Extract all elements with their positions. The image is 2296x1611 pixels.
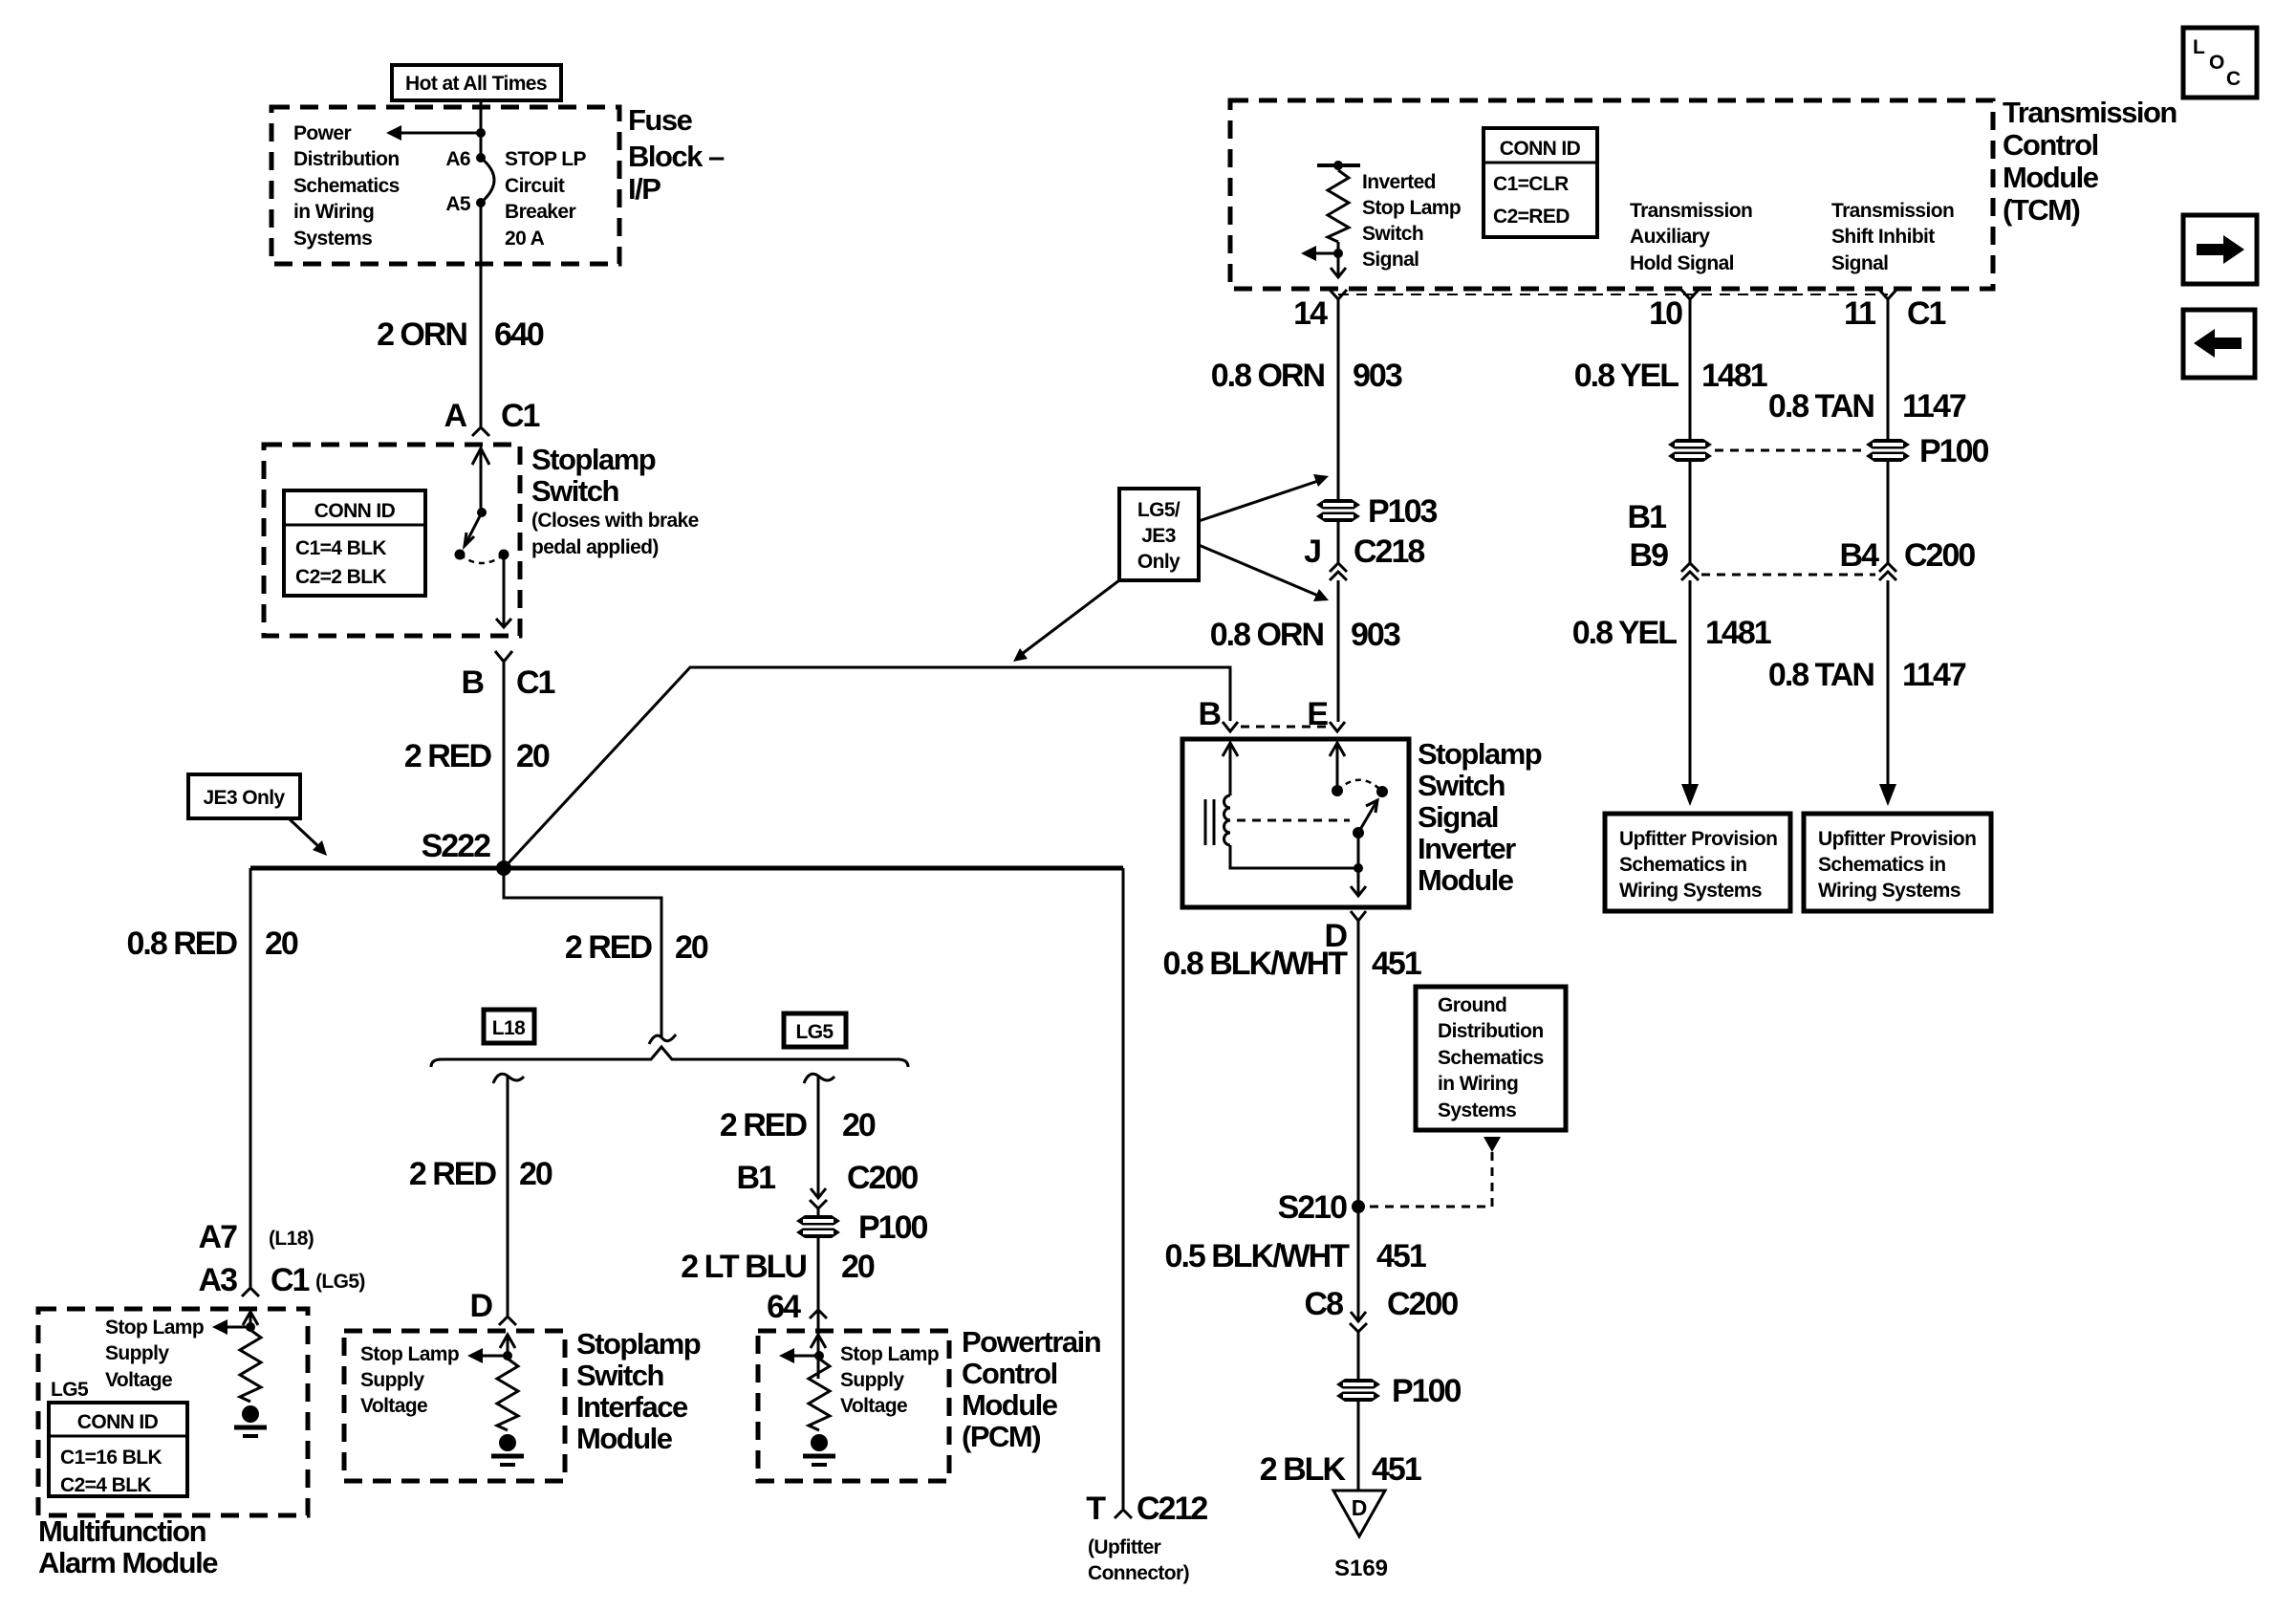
note: Stop Lamp Supply Voltage (PCM) bbox=[840, 1343, 939, 1417]
connector B C1 bbox=[461, 651, 554, 701]
connector C8 C200 bbox=[1305, 1286, 1459, 1332]
wire label 0.8 YEL 1481 (lower) bbox=[1572, 615, 1771, 651]
svg-text:C200: C200 bbox=[847, 1160, 918, 1196]
svg-text:20: 20 bbox=[265, 925, 298, 962]
JE3 main wire (horizontal run) bbox=[250, 866, 1123, 871]
splice S222 bbox=[422, 828, 511, 876]
pin 11 C1 bbox=[1844, 290, 1946, 332]
svg-text:C1: C1 bbox=[1907, 295, 1946, 332]
wire: JE3 run down to upfitter connector bbox=[1122, 868, 1125, 1509]
svg-text:Voltage: Voltage bbox=[840, 1395, 907, 1417]
wire label 0.8 BLK/WHT 451 bbox=[1163, 946, 1421, 982]
svg-text:JE3: JE3 bbox=[1141, 525, 1176, 547]
svg-text:LG5/: LG5/ bbox=[1137, 499, 1180, 521]
svg-text:0.8 ORN: 0.8 ORN bbox=[1210, 617, 1324, 653]
svg-text:P100: P100 bbox=[1919, 433, 1988, 469]
svg-text:Wiring Systems: Wiring Systems bbox=[1818, 880, 1960, 902]
forward arrow box bbox=[2183, 215, 2257, 284]
svg-text:LG5: LG5 bbox=[795, 1021, 834, 1043]
svg-text:P100: P100 bbox=[858, 1209, 927, 1246]
svg-text:P103: P103 bbox=[1368, 493, 1437, 530]
powertrain control module dashed box bbox=[758, 1331, 949, 1481]
transmission control module dashed box bbox=[1230, 100, 1993, 289]
svg-text:Module: Module bbox=[2003, 161, 2099, 194]
terminal A6 bbox=[445, 148, 486, 170]
wire pin11 to C200 bbox=[1887, 462, 1890, 563]
svg-text:Block –: Block – bbox=[628, 140, 725, 173]
connector B9 C200 bbox=[1681, 563, 1699, 580]
svg-text:Auxiliary: Auxiliary bbox=[1630, 226, 1710, 248]
svg-text:2 RED: 2 RED bbox=[404, 738, 492, 774]
switch pivot dot bbox=[477, 508, 487, 517]
svg-text:Supply: Supply bbox=[840, 1369, 904, 1391]
svg-text:640: 640 bbox=[494, 316, 544, 353]
stoplamp switch dashed box bbox=[264, 445, 520, 636]
ground (interface) bbox=[491, 1434, 524, 1465]
connector J C218 bbox=[1304, 533, 1424, 580]
svg-text:(Upfitter: (Upfitter bbox=[1088, 1536, 1161, 1558]
inverter output dot bbox=[1354, 863, 1363, 873]
svg-text:2 LT BLU: 2 LT BLU bbox=[681, 1249, 806, 1285]
page icon LOC box bbox=[2183, 28, 2257, 98]
svg-text:Switch: Switch bbox=[576, 1359, 663, 1392]
svg-text:L: L bbox=[2193, 36, 2205, 58]
wire: 1481 down to upfitter provision bbox=[1689, 580, 1692, 786]
svg-text:Signal: Signal bbox=[1418, 800, 1498, 834]
svg-text:Stoplamp: Stoplamp bbox=[531, 443, 656, 476]
svg-text:B: B bbox=[461, 664, 484, 701]
wire: 1147 down to upfitter provision bbox=[1887, 580, 1890, 786]
svg-text:0.8 YEL: 0.8 YEL bbox=[1574, 358, 1679, 394]
connector B bbox=[1198, 696, 1238, 732]
PCM signal leader bbox=[779, 1348, 819, 1363]
switch contact dots bbox=[455, 550, 509, 560]
ground reference triangle D bbox=[1333, 1491, 1385, 1536]
svg-text:S169: S169 bbox=[1334, 1556, 1388, 1581]
svg-text:C1=CLR: C1=CLR bbox=[1493, 173, 1569, 195]
wire label 0.8 RED 20 bbox=[127, 925, 298, 962]
svg-text:Fuse: Fuse bbox=[628, 103, 693, 137]
svg-text:O: O bbox=[2209, 52, 2224, 74]
circuit breaker STOP LP 20 A bbox=[481, 158, 494, 203]
dashed link between P100 grommets bbox=[1715, 449, 1864, 452]
connector A3/A7 C1 bbox=[242, 1288, 259, 1296]
svg-text:B9: B9 bbox=[1630, 537, 1669, 574]
svg-text:P100: P100 bbox=[1392, 1373, 1461, 1409]
wire label 2 RED 20 (LG5 branch) bbox=[720, 1107, 876, 1143]
svg-text:Switch: Switch bbox=[531, 474, 618, 508]
wire: battery feed into fuse block bbox=[480, 100, 483, 158]
JE3 leader arrow bbox=[289, 818, 327, 856]
svg-text:20 A: 20 A bbox=[505, 228, 545, 250]
svg-text:JE3 Only: JE3 Only bbox=[203, 787, 285, 809]
wire: circuit 903 from pin 14 bbox=[1337, 299, 1340, 499]
svg-text:Supply: Supply bbox=[360, 1369, 424, 1391]
svg-text:Transmission: Transmission bbox=[2003, 96, 2177, 129]
svg-text:2 RED: 2 RED bbox=[409, 1156, 497, 1192]
svg-text:0.8 TAN: 0.8 TAN bbox=[1768, 657, 1874, 693]
L18 branch break symbol bbox=[493, 1074, 524, 1083]
wire label 0.5 BLK/WHT 451 bbox=[1165, 1238, 1426, 1274]
switch input arrow bbox=[472, 448, 489, 512]
wire: S222 stub to option break bbox=[504, 868, 661, 1037]
svg-text:1481: 1481 bbox=[1701, 358, 1767, 394]
svg-text:1147: 1147 bbox=[1902, 388, 1966, 425]
svg-text:Voltage: Voltage bbox=[360, 1395, 427, 1417]
svg-text:C2=4 BLK: C2=4 BLK bbox=[60, 1474, 151, 1496]
svg-text:Stop Lamp: Stop Lamp bbox=[1362, 197, 1461, 219]
connector D (inverter output) bbox=[1324, 911, 1366, 954]
wire: diagonal from S222 to inverter module input B bbox=[504, 667, 1230, 868]
svg-text:Power: Power bbox=[293, 122, 351, 144]
note: Transmission Auxiliary Hold Signal bbox=[1630, 200, 1752, 274]
svg-text:451: 451 bbox=[1372, 946, 1421, 982]
connector A C1 bbox=[444, 398, 539, 436]
svg-text:Schematics: Schematics bbox=[293, 175, 400, 197]
svg-text:1481: 1481 bbox=[1705, 615, 1771, 651]
switch blade bbox=[465, 512, 482, 546]
ground (PCM) bbox=[803, 1434, 835, 1465]
svg-text:Wiring Systems: Wiring Systems bbox=[1619, 880, 1762, 902]
inverter pivot dot bbox=[1353, 827, 1364, 868]
svg-text:C2=RED: C2=RED bbox=[1493, 206, 1570, 228]
svg-text:B1: B1 bbox=[737, 1160, 776, 1196]
wire: L18 branch to interface module bbox=[507, 1077, 509, 1316]
wire label 0.8 ORN 903 bbox=[1211, 358, 1402, 394]
TCM junction dot bbox=[1333, 242, 1343, 258]
svg-text:Schematics: Schematics bbox=[1438, 1047, 1544, 1069]
wire: circuit 1147 from pin 11 bbox=[1887, 299, 1890, 439]
CONN ID box (TCM) bbox=[1484, 128, 1597, 237]
grommet P100 (ground branch) bbox=[1336, 1373, 1461, 1409]
wire below C200 bbox=[817, 1208, 820, 1379]
svg-text:Schematics in: Schematics in bbox=[1619, 854, 1746, 876]
alarm module entry arrow bbox=[243, 1312, 258, 1327]
svg-text:Breaker: Breaker bbox=[505, 201, 575, 223]
leader arrow to wire above P103 bbox=[1199, 474, 1329, 521]
svg-text:20: 20 bbox=[841, 1249, 875, 1285]
terminal A5 bbox=[445, 193, 486, 215]
LG5/JE3 Only tag box bbox=[1119, 489, 1199, 580]
wire label 0.8 YEL 1481 bbox=[1574, 358, 1767, 394]
interface signal leader bbox=[467, 1348, 508, 1363]
CONN ID box (alarm module) bbox=[49, 1403, 187, 1496]
wire break symbol bbox=[649, 1034, 676, 1044]
forward arrow icon bbox=[2197, 235, 2244, 264]
svg-text:C212: C212 bbox=[1137, 1491, 1207, 1527]
pin 10 bbox=[1649, 290, 1699, 332]
svg-text:Inverter: Inverter bbox=[1418, 832, 1516, 865]
wire pin10 to C200 bbox=[1689, 462, 1692, 563]
svg-text:D: D bbox=[469, 1288, 492, 1324]
svg-text:CONN ID: CONN ID bbox=[1500, 138, 1581, 160]
wire: circuit 451 to S210 bbox=[1357, 921, 1360, 1319]
svg-text:20: 20 bbox=[519, 1156, 552, 1192]
note: (Upfitter Connector) bbox=[1088, 1536, 1189, 1584]
upfitter provision note box (left) bbox=[1605, 814, 1790, 911]
svg-text:I/P: I/P bbox=[628, 172, 661, 206]
leader arrow to wire below C218 bbox=[1199, 545, 1329, 601]
pin 14 bbox=[1293, 290, 1347, 332]
svg-text:(L18): (L18) bbox=[269, 1228, 314, 1250]
svg-text:Stoplamp: Stoplamp bbox=[1418, 737, 1542, 771]
svg-text:(Closes with brake: (Closes with brake bbox=[531, 510, 699, 532]
resistor (PCM load) bbox=[809, 1359, 830, 1430]
svg-text:B: B bbox=[1198, 696, 1221, 732]
inverter travel dashed arc bbox=[1337, 780, 1382, 792]
TCM pull-up resistor bbox=[1328, 170, 1349, 242]
arrow into upfitter provision (left) bbox=[1681, 784, 1699, 806]
label: Stoplamp Switch bbox=[531, 443, 699, 558]
stoplamp switch signal inverter module box bbox=[1182, 739, 1409, 907]
svg-text:Distribution: Distribution bbox=[293, 148, 400, 170]
interface entry arrow bbox=[500, 1335, 515, 1356]
svg-text:Control: Control bbox=[2003, 128, 2098, 162]
svg-text:Systems: Systems bbox=[1438, 1099, 1516, 1121]
LG5 branch break symbol bbox=[804, 1074, 834, 1083]
svg-text:Shift Inhibit: Shift Inhibit bbox=[1831, 226, 1935, 248]
switch output arrow bbox=[496, 555, 511, 627]
CONN ID box (stoplamp switch) bbox=[284, 490, 425, 596]
wire label 0.8 ORN 903 (lower) bbox=[1210, 617, 1400, 653]
svg-text:C200: C200 bbox=[1904, 537, 1975, 574]
svg-text:C218: C218 bbox=[1354, 533, 1424, 570]
svg-text:451: 451 bbox=[1376, 1238, 1426, 1274]
svg-text:1147: 1147 bbox=[1902, 657, 1966, 693]
svg-text:A3: A3 bbox=[199, 1262, 238, 1298]
wire label 2 ORN 640 bbox=[377, 316, 544, 353]
JE3 Only tag box bbox=[188, 774, 300, 818]
svg-text:T: T bbox=[1086, 1491, 1106, 1527]
wire: LG5 branch to PCM bbox=[817, 1077, 820, 1197]
svg-text:20: 20 bbox=[675, 929, 708, 966]
switch travel dashed arc bbox=[460, 555, 504, 563]
leader arrow to Power Distribution note bbox=[386, 125, 481, 141]
label: Powertrain Control Module (PCM) bbox=[962, 1325, 1101, 1453]
svg-text:Stoplamp: Stoplamp bbox=[576, 1327, 701, 1361]
note: Stop Lamp Supply Voltage (alarm) bbox=[105, 1317, 204, 1391]
svg-text:Module: Module bbox=[576, 1422, 673, 1455]
label: Stoplamp Switch Interface Module bbox=[576, 1327, 701, 1455]
svg-text:(TCM): (TCM) bbox=[2003, 193, 2079, 227]
svg-text:Supply: Supply bbox=[105, 1342, 169, 1364]
svg-text:Powertrain: Powertrain bbox=[962, 1325, 1101, 1359]
pin labels A3 C1 (LG5) bbox=[199, 1262, 365, 1298]
splice S210 bbox=[1278, 1189, 1365, 1226]
wire: left branch 0.8 RED down to alarm module bbox=[249, 868, 252, 1287]
svg-text:Systems: Systems bbox=[293, 228, 372, 250]
svg-text:Circuit: Circuit bbox=[505, 175, 565, 197]
svg-text:903: 903 bbox=[1353, 358, 1402, 394]
svg-text:C200: C200 bbox=[1387, 1286, 1458, 1322]
wire: circuit 903 to inverter E bbox=[1337, 580, 1340, 722]
svg-text:Hold Signal: Hold Signal bbox=[1630, 252, 1734, 274]
wire label 0.8 TAN 1147 (lower) bbox=[1768, 657, 1966, 693]
svg-text:Switch: Switch bbox=[1362, 223, 1423, 245]
svg-text:A5: A5 bbox=[445, 193, 471, 215]
wire: circuit 451 to ground S169 bbox=[1357, 1402, 1360, 1491]
label: Multifunction Alarm Module bbox=[38, 1514, 218, 1579]
leader from ground note to S210 bbox=[1370, 1137, 1501, 1207]
svg-text:Stop Lamp: Stop Lamp bbox=[105, 1317, 204, 1339]
svg-text:pedal applied): pedal applied) bbox=[531, 536, 659, 558]
label: Stoplamp Switch Signal Inverter Module bbox=[1418, 737, 1542, 897]
options brace bbox=[431, 1047, 908, 1067]
svg-text:2 BLK: 2 BLK bbox=[1260, 1451, 1347, 1488]
tag box L18 bbox=[484, 1010, 534, 1043]
svg-text:(LG5): (LG5) bbox=[315, 1271, 365, 1293]
inverter B entry arrow bbox=[1223, 743, 1238, 795]
note: Stop Lamp Supply Voltage (interface) bbox=[360, 1343, 459, 1417]
svg-text:Module: Module bbox=[1418, 863, 1514, 897]
svg-text:903: 903 bbox=[1351, 617, 1400, 653]
wire between P103 and C218 bbox=[1337, 522, 1340, 563]
svg-text:Signal: Signal bbox=[1362, 249, 1419, 271]
interface junction dot bbox=[503, 1351, 512, 1361]
wire label 0.8 TAN 1147 bbox=[1768, 388, 1966, 425]
inverter bottom wire bbox=[1230, 845, 1358, 868]
svg-text:S222: S222 bbox=[422, 828, 490, 864]
svg-text:0.8 ORN: 0.8 ORN bbox=[1211, 358, 1325, 394]
pin labels B1 B9 bbox=[1628, 499, 1669, 574]
svg-text:Stop Lamp: Stop Lamp bbox=[360, 1343, 459, 1365]
svg-text:CONN ID: CONN ID bbox=[77, 1411, 159, 1433]
wire label 2 BLK 451 bbox=[1260, 1451, 1421, 1488]
svg-text:C1: C1 bbox=[501, 398, 540, 434]
svg-text:C8: C8 bbox=[1305, 1286, 1344, 1322]
inverter relay coil bbox=[1205, 795, 1230, 845]
PCM entry arrow bbox=[811, 1335, 826, 1356]
wire C200 to P100 bbox=[1357, 1332, 1360, 1379]
note: STOP LP Circuit Breaker 20 A bbox=[505, 148, 586, 250]
svg-text:0.5 BLK/WHT: 0.5 BLK/WHT bbox=[1165, 1238, 1351, 1274]
svg-text:C1=16 BLK: C1=16 BLK bbox=[60, 1447, 162, 1469]
svg-text:C: C bbox=[2226, 68, 2241, 90]
svg-text:A7: A7 bbox=[199, 1219, 238, 1255]
PCM junction dot bbox=[814, 1351, 824, 1361]
upfitter provision note box (right) bbox=[1804, 814, 1991, 911]
svg-text:STOP LP: STOP LP bbox=[505, 148, 586, 170]
note: Inverted Stop Lamp Switch Signal bbox=[1362, 171, 1461, 271]
inverter right contact dot bbox=[1376, 786, 1388, 797]
connector 64 (PCM) bbox=[810, 1310, 827, 1318]
arrow into upfitter provision (right) bbox=[1879, 784, 1896, 806]
svg-text:LG5: LG5 bbox=[51, 1379, 89, 1401]
svg-text:Only: Only bbox=[1137, 551, 1180, 573]
svg-text:2 ORN: 2 ORN bbox=[377, 316, 466, 353]
ground distribution note box bbox=[1416, 987, 1566, 1130]
svg-text:Switch: Switch bbox=[1418, 769, 1505, 802]
svg-text:L18: L18 bbox=[492, 1017, 526, 1039]
back arrow icon bbox=[2194, 329, 2242, 358]
ground (alarm module) bbox=[234, 1405, 267, 1436]
connector B1 C200 bbox=[737, 1160, 919, 1208]
TCM supply rail bbox=[1317, 161, 1360, 170]
grommet P100 (pin 10 branch) bbox=[1668, 439, 1712, 462]
svg-text:Alarm Module: Alarm Module bbox=[38, 1546, 218, 1579]
inverter output arrow bbox=[1351, 868, 1366, 896]
svg-text:10: 10 bbox=[1649, 295, 1682, 332]
dashed link B to E bbox=[1241, 726, 1328, 729]
svg-text:Voltage: Voltage bbox=[105, 1369, 172, 1391]
leader arrow to JE3 wire bbox=[1013, 580, 1119, 662]
svg-text:C1=4 BLK: C1=4 BLK bbox=[295, 537, 386, 559]
svg-text:Control: Control bbox=[962, 1357, 1057, 1390]
svg-text:CONN ID: CONN ID bbox=[314, 500, 396, 522]
svg-text:A: A bbox=[444, 398, 466, 434]
svg-text:0.8 RED: 0.8 RED bbox=[127, 925, 238, 962]
svg-text:Schematics in: Schematics in bbox=[1818, 854, 1945, 876]
svg-text:Interface: Interface bbox=[576, 1390, 688, 1424]
svg-text:451: 451 bbox=[1372, 1451, 1421, 1488]
svg-text:Inverted: Inverted bbox=[1362, 171, 1436, 193]
TCM signal leader left bbox=[1301, 246, 1338, 261]
inverter E entry arrow bbox=[1330, 743, 1345, 791]
resistor (alarm module load) bbox=[240, 1330, 261, 1402]
note: Transmission Shift Inhibit Signal bbox=[1831, 200, 1954, 274]
svg-text:(PCM): (PCM) bbox=[962, 1420, 1040, 1453]
inverter E contact dot bbox=[1332, 785, 1343, 796]
wire label 2 RED 20 bbox=[404, 738, 550, 774]
svg-text:Transmission: Transmission bbox=[1630, 200, 1752, 222]
svg-text:64: 64 bbox=[767, 1289, 801, 1325]
wire: circuit 640 from A5 to connector A bbox=[480, 203, 483, 426]
svg-text:in Wiring: in Wiring bbox=[293, 201, 374, 223]
inverter relay blade bbox=[1358, 800, 1377, 833]
svg-text:C1: C1 bbox=[516, 664, 555, 701]
grommet P100 (pin 11 branch) bbox=[1866, 433, 1988, 469]
svg-text:0.8 BLK/WHT: 0.8 BLK/WHT bbox=[1163, 946, 1349, 982]
connector E bbox=[1307, 696, 1345, 732]
svg-text:14: 14 bbox=[1293, 295, 1328, 332]
label: Transmission Control Module (TCM) bbox=[2003, 96, 2177, 227]
connector T C212 bbox=[1086, 1491, 1207, 1527]
note: Power Distribution Schematics in Wiring Systems bbox=[293, 122, 400, 250]
inverter coil link dashed bbox=[1237, 819, 1350, 822]
alarm module signal leader bbox=[212, 1319, 250, 1335]
multifunction alarm module dashed box bbox=[38, 1309, 308, 1515]
svg-text:C1: C1 bbox=[271, 1262, 310, 1298]
svg-text:Stop Lamp: Stop Lamp bbox=[840, 1343, 939, 1365]
svg-text:0.8 TAN: 0.8 TAN bbox=[1768, 388, 1874, 425]
svg-text:0.8 YEL: 0.8 YEL bbox=[1572, 615, 1677, 651]
svg-text:S210: S210 bbox=[1278, 1189, 1347, 1226]
label: Fuse Block - I/P bbox=[628, 103, 725, 206]
svg-text:Hot at All Times: Hot at All Times bbox=[405, 73, 547, 95]
resistor (interface load) bbox=[497, 1359, 518, 1430]
svg-text:20: 20 bbox=[516, 738, 550, 774]
svg-text:B4: B4 bbox=[1840, 537, 1880, 574]
TCM pin header dashed line bbox=[1338, 294, 1888, 295]
svg-text:Distribution: Distribution bbox=[1438, 1020, 1544, 1042]
svg-text:2 RED: 2 RED bbox=[565, 929, 653, 966]
svg-text:A6: A6 bbox=[445, 148, 470, 170]
label box: Hot at All Times bbox=[392, 65, 561, 100]
grommet P100 (LG5 branch) bbox=[796, 1209, 927, 1246]
svg-text:11: 11 bbox=[1844, 295, 1875, 332]
connector B4 C200 bbox=[1840, 537, 1976, 580]
svg-text:D: D bbox=[1352, 1495, 1368, 1520]
svg-text:Connector): Connector) bbox=[1088, 1562, 1189, 1584]
wire label 2 RED 20 (stub) bbox=[565, 929, 708, 966]
svg-text:Signal: Signal bbox=[1831, 252, 1888, 274]
svg-text:2 RED: 2 RED bbox=[720, 1107, 808, 1143]
wire label 2 RED 20 (L18 branch) bbox=[409, 1156, 552, 1192]
connector D (interface module) bbox=[469, 1288, 516, 1325]
svg-text:Upfitter Provision: Upfitter Provision bbox=[1818, 828, 1976, 850]
grommet P103 bbox=[1316, 493, 1437, 530]
pin labels A7 (L18) bbox=[199, 1219, 314, 1255]
